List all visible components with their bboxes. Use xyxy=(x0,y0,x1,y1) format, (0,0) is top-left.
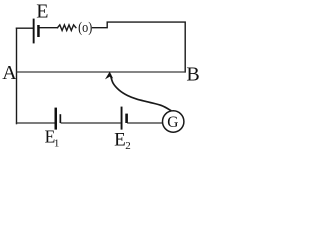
svg-text:1: 1 xyxy=(54,138,60,150)
svg-text:(o): (o) xyxy=(78,19,92,35)
svg-text:E: E xyxy=(114,129,126,150)
svg-text:B: B xyxy=(186,64,199,86)
svg-text:2: 2 xyxy=(125,140,131,152)
svg-text:G: G xyxy=(167,114,178,131)
svg-text:E: E xyxy=(36,1,48,23)
svg-text:A: A xyxy=(2,62,17,84)
